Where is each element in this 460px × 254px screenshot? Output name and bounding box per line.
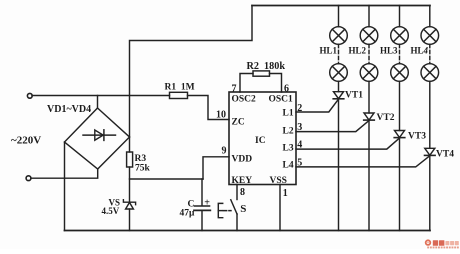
svg-text:2: 2 xyxy=(297,103,302,114)
switch S pin8 stub xyxy=(236,185,238,200)
resistor R3 xyxy=(127,152,133,167)
svg-text:ZC: ZC xyxy=(232,118,245,128)
watermark text blocks xyxy=(427,240,459,248)
VT4 gate wire from pin5 xyxy=(296,156,430,167)
svg-text:IC: IC xyxy=(255,136,266,146)
wire stub to bridge top vertex xyxy=(97,96,99,109)
wire VS to bottom rail xyxy=(129,209,131,231)
svg-text:S: S xyxy=(240,203,246,215)
svg-text:R2 180k: R2 180k xyxy=(247,61,286,72)
terminal bottom xyxy=(26,176,31,181)
svg-text:L3: L3 xyxy=(283,143,294,153)
svg-text:OSC1: OSC1 xyxy=(269,94,294,104)
thyristor VT3 xyxy=(395,131,405,138)
VT1 gate wire from pin2 xyxy=(296,99,339,112)
svg-text:47μ: 47μ xyxy=(180,209,196,219)
svg-text:VT3: VT3 xyxy=(408,132,426,142)
top rail xyxy=(252,5,430,7)
svg-text:HL4: HL4 xyxy=(411,45,429,55)
svg-text:75k: 75k xyxy=(135,164,151,174)
svg-text:KEY: KEY xyxy=(232,176,253,186)
svg-text:1: 1 xyxy=(283,188,288,199)
wire R3 to VDD node xyxy=(129,167,131,202)
svg-text:HL1: HL1 xyxy=(320,45,338,55)
svg-text:VT4: VT4 xyxy=(436,150,454,160)
svg-text:VSS: VSS xyxy=(270,176,287,186)
svg-text:VDD: VDD xyxy=(232,154,253,164)
wire R1 to corner to IC pin10 xyxy=(188,96,230,120)
svg-text:5: 5 xyxy=(297,158,302,169)
svg-text:10: 10 xyxy=(216,110,226,121)
svg-text:VT2: VT2 xyxy=(377,113,395,123)
terminal top (~220V line) xyxy=(27,93,32,98)
wire bridge left vertex down to bottom rail xyxy=(64,142,66,231)
resistor R2 xyxy=(253,71,270,76)
bottom rail xyxy=(65,230,431,232)
lamp column HL1 string xyxy=(338,6,340,27)
svg-text:9: 9 xyxy=(222,146,227,157)
diode inside bridge xyxy=(83,134,116,136)
thyristor VT2 xyxy=(364,113,374,120)
IC U1 box xyxy=(229,92,296,185)
svg-text:7: 7 xyxy=(232,84,237,95)
svg-text:OSC2: OSC2 xyxy=(232,94,257,104)
VDD pin9 wire xyxy=(203,157,229,179)
wire bottom terminal to bridge bottom vertex xyxy=(31,169,98,178)
thyristor VT1 xyxy=(334,92,344,99)
wire top terminal to R1 xyxy=(32,95,170,97)
watermark logo circle xyxy=(425,239,431,245)
svg-text:HL3: HL3 xyxy=(380,45,398,55)
wire bridge right vertex up to top corner xyxy=(130,6,253,138)
wire right vertex down to R3 xyxy=(129,137,131,152)
VT3 gate wire from pin4 xyxy=(296,138,400,149)
capacitor C plates xyxy=(195,205,210,207)
svg-text:~220V: ~220V xyxy=(11,135,41,147)
pin6 wire xyxy=(270,74,282,93)
lamp column HL2 string xyxy=(368,6,370,27)
svg-text:R1 1M: R1 1M xyxy=(165,83,195,93)
bridge rectifier VD1~VD4 xyxy=(65,108,130,169)
capacitor C lead xyxy=(201,179,203,205)
node VDD rail horizontal xyxy=(130,178,204,180)
lamp column HL4 string xyxy=(429,6,431,27)
svg-text:3: 3 xyxy=(297,122,302,133)
VSS pin1 wire xyxy=(279,185,281,231)
svg-text:4.5V: 4.5V xyxy=(102,206,120,216)
switch S lever xyxy=(231,200,237,214)
svg-text:L4: L4 xyxy=(283,160,294,170)
svg-text:L2: L2 xyxy=(283,126,294,136)
lamp column HL3 string xyxy=(399,6,401,27)
svg-text:VD1~VD4: VD1~VD4 xyxy=(47,104,91,115)
svg-text:R3: R3 xyxy=(135,154,147,164)
svg-text:+: + xyxy=(204,197,210,208)
svg-text:L1: L1 xyxy=(283,108,294,118)
svg-text:4: 4 xyxy=(297,140,302,151)
switch S bottom stub xyxy=(236,214,238,231)
VT2 gate wire from pin3 xyxy=(296,121,369,132)
pushbutton actuator E xyxy=(218,203,222,217)
thyristor VT4 xyxy=(425,148,435,155)
svg-text:8: 8 xyxy=(240,187,245,198)
resistor R1 xyxy=(170,92,188,98)
pin7 wire xyxy=(240,74,253,93)
svg-text:6: 6 xyxy=(284,84,289,95)
svg-text:HL2: HL2 xyxy=(349,45,367,55)
zener VS xyxy=(123,200,135,205)
svg-text:VT1: VT1 xyxy=(345,91,363,101)
